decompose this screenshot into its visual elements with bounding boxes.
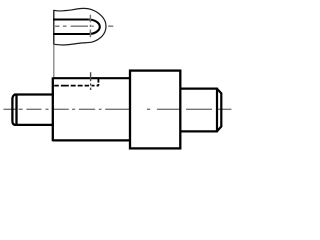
hidden hole horizontal dashed line [54, 85, 98, 87]
front view left cap rounded profile [12, 95, 15, 125]
hole vertical centerline (front view) [90, 72, 92, 90]
top view slot right cap arc [88, 20, 100, 35]
chamfer tangent vertical line [216, 88, 218, 133]
top view slot top line [53, 18, 88, 20]
top view outer contour (freehand) [54, 8, 106, 45]
front view cap tangent line [15, 94, 17, 125]
projection line between views [53, 44, 55, 77]
front view small-cylinder bottom line [14, 124, 54, 126]
top view left vertical edge [53, 10, 55, 45]
top view slot bottom line [53, 33, 89, 35]
front view horizontal centerline (dash-dot segments) [4, 108, 232, 110]
front view small-cylinder top line [14, 93, 54, 95]
front view mid-section top line [53, 77, 130, 79]
hidden hole vertical dashed line [97, 79, 99, 86]
front view mid-section bottom line [53, 139, 130, 141]
right shaft bottom line [180, 130, 217, 132]
top view vertical centerline (dash-dot segments) [89, 15, 91, 38]
top view horizontal centerline (dash-dot segments) [55, 25, 113, 27]
big flange block outline [130, 71, 180, 149]
right shaft top line [180, 87, 217, 89]
front view mid-section left vertical (step) [52, 77, 54, 141]
right end chamfered edge [217, 89, 221, 132]
